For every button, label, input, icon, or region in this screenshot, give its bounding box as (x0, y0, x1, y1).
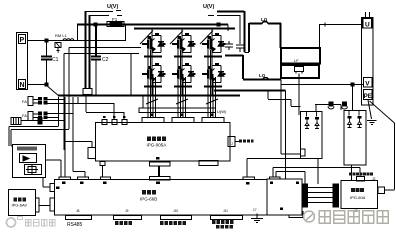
connector ctrl bottom RS485 (66, 216, 92, 220)
wire U loop drop (280, 23, 282, 48)
wire midpoint bars (144, 56, 222, 58)
terminal P (19, 35, 26, 44)
label gate connectors (150, 114, 153, 117)
wire rail drop h2 (86, 95, 124, 120)
connector ctrl top c3 (101, 177, 111, 180)
wire aux band upper (9, 97, 59, 146)
wire V out to terminal (281, 84, 363, 86)
wire sense line A left (85, 11, 121, 12)
snubber unit box left (301, 112, 323, 159)
svg-text:IPG-66B: IPG-66B (140, 197, 157, 202)
connector driver right (228, 137, 235, 147)
terminal V (364, 78, 373, 88)
svg-text:J: J (231, 142, 233, 146)
gate bundle leg3 (208, 47, 216, 118)
connector P/N input terminal block (17, 33, 28, 90)
connector ctrl left nub lower (50, 198, 55, 211)
watermark left text (26, 220, 56, 227)
ground control (251, 214, 263, 223)
svg-text:U(V): U(V) (203, 4, 214, 10)
connector power right square (378, 187, 385, 194)
terminal N (19, 80, 26, 89)
svg-text:PE: PE (364, 94, 372, 100)
wire bridge bottom rail (58, 94, 240, 96)
connector I-beam driver to ctrl (150, 162, 171, 166)
capacitor C2 (91, 57, 101, 60)
transistor V3 upper leg2 (172, 33, 196, 53)
wire bridge left riser (130, 54, 132, 96)
connector driver bottom2 (199, 161, 218, 166)
svg-text:C1: C1 (52, 57, 59, 63)
riser termination lug (83, 89, 92, 95)
wire thermistor run (42, 121, 92, 148)
capacitor C1 (46, 40, 48, 56)
snubber capacitor leg3 (225, 41, 233, 50)
wire sense line B left (90, 15, 123, 17)
svg-text:IPG-60A: IPG-60A (350, 195, 366, 200)
wire riser B (89, 15, 91, 88)
node bus dot (94, 23, 97, 26)
svg-text:IPG-005A: IPG-005A (147, 143, 167, 148)
svg-text:RS485: RS485 (67, 222, 83, 228)
connector ctrl bottom right (289, 212, 303, 218)
node N junction (45, 83, 48, 86)
svg-text:C2: C2 (102, 57, 109, 63)
wire fan2 feed (48, 114, 74, 118)
CT sensor A (329, 102, 333, 106)
keypad button block (25, 165, 42, 175)
wire phase U riser (248, 23, 250, 52)
connector ctrl top c1 (59, 177, 71, 180)
wire snubber left to ribbon (317, 159, 319, 185)
svg-text:J8: J8 (76, 209, 80, 213)
svg-text:J2: J2 (372, 177, 376, 181)
terminal module box (267, 179, 302, 215)
wire driver stub down (102, 166, 104, 178)
connector gate leg2 (172, 118, 194, 123)
node P junction (45, 39, 48, 42)
svg-text:FA: FA (22, 113, 27, 118)
ribbon connector right bar (333, 184, 339, 207)
arrester FV (55, 43, 61, 48)
svg-text:RM L1: RM L1 (55, 33, 68, 38)
wire aux band lower (11, 97, 69, 177)
connector driver left (88, 148, 96, 159)
jumper diagonal leg3 (200, 31, 213, 45)
gate bundle leg1 (148, 47, 156, 118)
wire snubber right to power (351, 165, 353, 181)
connector driver J1 (102, 120, 107, 125)
svg-text:V: V (365, 81, 370, 88)
transistor V6 lower leg3 (202, 63, 226, 83)
wire gate sense upper (69, 48, 141, 130)
transistor V2 lower leg1 (142, 63, 166, 83)
wire keypad link 2 (43, 178, 50, 188)
wire bus left drop (77, 24, 79, 41)
wire DC+ bus (77, 24, 228, 26)
connector driver J3 (122, 120, 127, 125)
svg-text:J9: J9 (125, 209, 129, 213)
label power input (349, 173, 352, 176)
connector ctrl bottom digital (161, 216, 192, 220)
terminal U (363, 19, 372, 29)
connector ctrl bottom relay (211, 216, 243, 220)
wire riser to fuse bus (125, 25, 127, 41)
terminal PE (364, 90, 373, 100)
watermark left logo (7, 218, 16, 227)
wire driver right to ctrl J6 (235, 141, 239, 143)
wire feed c2 (73, 97, 85, 177)
transistor V1 upper leg1 (142, 33, 166, 53)
snubber capacitor right (236, 45, 244, 52)
IGBT legs verticals (152, 29, 212, 96)
svg-text:J11: J11 (223, 209, 228, 213)
wire fan1 feed (48, 100, 79, 104)
connector ctrl top c2 (78, 177, 89, 180)
svg-text:N: N (20, 82, 25, 89)
wire phase W riser (242, 55, 244, 79)
ribbon connector left bar (302, 184, 308, 207)
connector ctrl bottom analog (114, 216, 142, 220)
connector gate leg3 (202, 118, 224, 123)
svg-text:FA: FA (22, 99, 27, 104)
keypad operation panel (13, 145, 46, 178)
wire CT drop (298, 74, 300, 116)
svg-text:P: P (20, 37, 25, 44)
bus gate tie bar (139, 108, 216, 113)
wire phase W tap (225, 55, 243, 57)
wire keypad link 1 (46, 160, 62, 177)
wire phase down left (285, 91, 287, 180)
wire N bus (28, 84, 46, 86)
wire feed c6 (273, 168, 360, 178)
watermark right text (304, 211, 389, 224)
transistor V4 lower leg2 (172, 63, 196, 83)
wire gate sense lower (64, 54, 139, 151)
wire phase W run (243, 79, 281, 81)
wire sense line A right (217, 11, 245, 52)
wire U out to terminal (320, 24, 363, 48)
svg-text:LF: LF (294, 58, 299, 63)
ground PE (368, 100, 372, 119)
CT sensor B (343, 102, 347, 106)
snubber unit box right (344, 111, 366, 166)
node V junction (351, 83, 354, 86)
wire PE diagonal long (370, 101, 395, 123)
varistor pair left (305, 117, 309, 120)
transistor V5 upper leg3 (202, 33, 226, 53)
connector gate leg1 (142, 118, 164, 123)
wire P bus (28, 40, 76, 42)
loop CT U rect (281, 48, 320, 64)
thermistor RT (11, 118, 21, 125)
wire emitter drop (142, 96, 144, 109)
control board IPG-66B (55, 180, 301, 216)
connector ctrl top c5 (243, 177, 255, 180)
ribbon wires (308, 188, 334, 203)
wire rail drop h1 (78, 97, 114, 120)
wire feed c5 (247, 159, 301, 178)
gate bundle leg2 (178, 47, 186, 118)
wire riser A (85, 11, 87, 88)
loop CT V rect (281, 65, 319, 78)
inductor L1 coil (63, 39, 74, 41)
connector ctrl left nub upper (50, 184, 55, 192)
wire sense line B right (208, 15, 240, 44)
svg-text:U(V): U(V) (107, 4, 118, 10)
jumper diagonal leg1 (140, 31, 153, 45)
wire L1 to bridge (74, 40, 126, 42)
wire phase V tap lower (214, 90, 286, 92)
label ctrl left J (56, 187, 60, 190)
power board IPG-60A (341, 181, 378, 209)
svg-text:IPG-6A0: IPG-6A0 (12, 203, 28, 208)
wire N diagonal to bottom rail (46, 85, 59, 96)
driver board IPG-005A (96, 123, 231, 162)
connector power top (357, 177, 365, 182)
svg-text:17: 17 (253, 208, 257, 212)
wire keyboard link (39, 205, 50, 207)
varistor pair right (348, 116, 352, 119)
wire bus drop right (227, 25, 229, 32)
svg-text:J10: J10 (173, 209, 178, 213)
connector driver J2 (112, 120, 117, 125)
connector driver bottom-left stub (100, 162, 105, 166)
wire riser C2 feed (95, 24, 97, 56)
connector ctrl top c6 (270, 177, 281, 180)
label driver top Js (103, 116, 106, 118)
svg-text:U: U (365, 22, 370, 29)
jumper diagonal leg2 (170, 31, 183, 45)
wire loop down (281, 80, 301, 155)
svg-text:U(W): U(W) (217, 109, 227, 114)
wire joint sense (245, 52, 250, 54)
connector output terminal strip (362, 18, 374, 106)
keyboard board (9, 190, 36, 216)
wire bridge top rail (134, 28, 235, 30)
connector keyboard right nub (36, 198, 40, 212)
bus CT line (315, 104, 341, 106)
keypad display (20, 154, 37, 163)
